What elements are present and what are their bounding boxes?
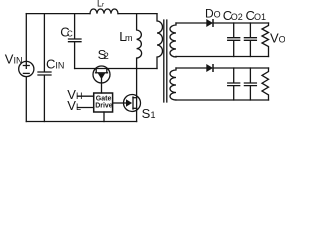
diode bottom output cathode bar: [212, 64, 214, 72]
wire secondary top lead to diode Do: [176, 22, 206, 24]
diode Do triangle: [206, 19, 213, 27]
MOSFET S1 body: [124, 95, 141, 112]
svg-text:S1: S1: [142, 106, 156, 121]
inductor Lm: [137, 14, 142, 69]
voltage source minus: [23, 72, 29, 74]
svg-text:DO: DO: [205, 7, 221, 21]
MOSFET S1 source tick: [133, 107, 137, 109]
wire bottom output rail: [213, 67, 269, 69]
svg-text:CIN: CIN: [46, 56, 64, 71]
capacitor Cin: [38, 14, 51, 122]
inductor Lr: [90, 9, 118, 14]
wire top rail left segment: [26, 13, 90, 15]
gate drive box: [94, 93, 113, 112]
wire VL lead: [78, 107, 94, 109]
capacitor Co2 bottom: [228, 68, 240, 100]
wire bottom rail: [26, 121, 136, 123]
MOSFET S2 gate arrow: [98, 73, 105, 79]
svg-text:CC: CC: [60, 25, 73, 40]
wire Vin bottom lead: [25, 77, 27, 122]
MOSFET S1 drain tick: [133, 97, 137, 99]
wire clamp node horizontal: [75, 68, 157, 70]
diode bottom output triangle: [206, 64, 213, 72]
MOSFET S2 channel bar: [96, 72, 108, 74]
voltage source Vin circle: [19, 61, 34, 76]
transformer core: [164, 20, 167, 102]
MOSFET S2 body: [93, 66, 110, 83]
voltage source plus: [23, 63, 29, 69]
svg-text:CO2: CO2: [223, 8, 243, 23]
capacitor Co2 top: [228, 23, 240, 57]
wire top output bottom rail: [176, 56, 269, 58]
transformer secondary winding top: [170, 23, 176, 57]
wire top output rail: [213, 22, 269, 24]
capacitor Cc: [69, 14, 82, 69]
wire bottom output bottom rail: [176, 99, 269, 101]
wire VH lead: [78, 95, 94, 97]
svg-text:CO1: CO1: [246, 8, 267, 23]
MOSFET S1 gate lead: [113, 102, 126, 104]
wire gate drive bottom lead: [103, 112, 105, 122]
transformer secondary winding bottom: [170, 68, 176, 100]
svg-text:Gate: Gate: [96, 95, 112, 102]
svg-text:Lr: Lr: [97, 0, 105, 9]
MOSFET S1 gate arrow: [126, 99, 132, 106]
MOSFET S2 gate lead: [101, 79, 103, 93]
MOSFET S2 source tick: [106, 69, 108, 73]
svg-text:VO: VO: [270, 31, 285, 46]
resistor load bottom with leads: [262, 68, 269, 100]
svg-text:VIN: VIN: [5, 52, 23, 67]
wire top rail right segment: [118, 13, 157, 15]
svg-text:Drive: Drive: [95, 103, 113, 110]
capacitor Co1 top: [244, 23, 256, 57]
svg-text:S2: S2: [98, 47, 109, 62]
MOSFET S1 drain-source wire: [136, 69, 138, 122]
diode Do cathode bar: [212, 19, 214, 27]
svg-text:Lm: Lm: [119, 29, 132, 44]
wire second secondary top lead to diode: [176, 67, 206, 69]
MOSFET S1 channel bar: [132, 97, 134, 109]
resistor load Vo top with leads: [262, 23, 269, 57]
MOSFET S2 drain tick: [95, 69, 97, 73]
wire left vertical: [25, 14, 27, 62]
capacitor Co1 bottom: [244, 68, 256, 100]
transformer primary winding: [157, 14, 163, 69]
